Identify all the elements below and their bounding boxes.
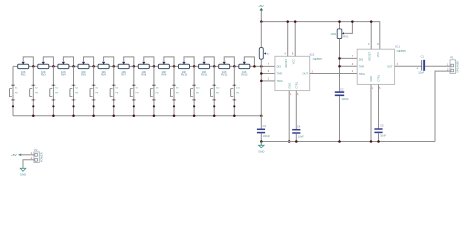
pushbutton S12 xyxy=(231,66,241,115)
svg-text:OUT: OUT xyxy=(387,64,393,68)
wire IC2 CTRL to C4 xyxy=(295,91,297,129)
svg-text:CTRL: CTRL xyxy=(377,74,381,81)
junction xyxy=(295,140,298,143)
svg-text:GND: GND xyxy=(287,83,291,89)
svg-text:C1: C1 xyxy=(421,54,425,58)
junction xyxy=(153,115,156,118)
junction xyxy=(338,140,341,143)
potentiometer RV13 10K xyxy=(239,57,255,77)
junction xyxy=(133,115,136,118)
potentiometer RV5 10K xyxy=(78,57,94,77)
potentiometer RV10 10K xyxy=(179,57,195,77)
junction xyxy=(92,115,95,118)
timer IC1 NE555 xyxy=(352,43,406,90)
svg-text:RV11: RV11 xyxy=(201,74,208,77)
potentiometer RV11 10K xyxy=(199,57,215,77)
wire THR/TRIG tie xyxy=(260,66,262,115)
junction xyxy=(351,20,354,23)
wire P1 pin2 to ground xyxy=(435,71,450,141)
svg-text:+5V: +5V xyxy=(11,153,16,157)
ground GND input xyxy=(20,160,34,177)
junction xyxy=(213,115,216,118)
svg-text:10uF: 10uF xyxy=(418,70,424,74)
potentiometer RV12 10K xyxy=(219,57,235,77)
svg-text:DIS: DIS xyxy=(359,57,364,61)
wire RV1 to IC1 DIS/THR xyxy=(339,39,341,93)
wire IC1 CTRL to C5 xyxy=(378,84,380,129)
junction xyxy=(260,115,263,118)
svg-text:RV8: RV8 xyxy=(141,74,146,77)
pushbutton S4 xyxy=(70,66,79,115)
svg-text:+: + xyxy=(416,67,418,71)
svg-text:RESET: RESET xyxy=(284,58,288,67)
capacitor C4 10nF xyxy=(292,124,304,141)
junction xyxy=(260,72,263,75)
svg-text:VCC: VCC xyxy=(291,59,295,65)
potentiometer RV1 100k xyxy=(330,22,352,39)
junction xyxy=(288,140,291,143)
potentiometer RV7 10K xyxy=(118,57,134,77)
junction xyxy=(193,65,196,68)
potentiometer RV9 10K xyxy=(158,57,174,77)
svg-text:P1: P1 xyxy=(450,56,454,60)
svg-text:10nF: 10nF xyxy=(298,134,304,138)
pushbutton S11 xyxy=(211,66,221,115)
junction xyxy=(72,65,75,68)
junction xyxy=(32,65,35,68)
junction xyxy=(193,115,196,118)
wire C1 to P1 pin1 xyxy=(425,65,450,67)
junction xyxy=(260,65,263,68)
wire IC2 RESET to +5V xyxy=(287,22,289,57)
svg-text:100k: 100k xyxy=(330,32,336,36)
resistor R2 1k xyxy=(259,22,270,67)
svg-text:RV12: RV12 xyxy=(221,74,228,77)
svg-text:THR: THR xyxy=(277,72,282,76)
svg-text:THR: THR xyxy=(359,64,364,68)
svg-text:RV5: RV5 xyxy=(81,74,86,77)
junction xyxy=(260,80,263,83)
svg-text:P2: P2 xyxy=(34,148,38,152)
junction xyxy=(260,140,263,143)
junction xyxy=(32,115,35,118)
potentiometer RV6 10K xyxy=(98,57,114,77)
svg-text:RV1: RV1 xyxy=(343,35,349,39)
svg-text:C4: C4 xyxy=(297,124,301,128)
pushbutton S5 xyxy=(90,66,99,115)
connector P1 SPEAKER xyxy=(447,56,460,74)
junction xyxy=(294,20,297,23)
potentiometer RV2 10K xyxy=(18,57,34,77)
junction xyxy=(286,20,289,23)
svg-text:RV9: RV9 xyxy=(161,74,166,77)
pushbutton S7 xyxy=(130,66,139,115)
wire pot-chain THR/DIS net xyxy=(13,65,275,67)
ground GND xyxy=(258,142,264,154)
svg-text:TRIG: TRIG xyxy=(359,72,365,76)
supply +5V input xyxy=(11,153,34,157)
junction xyxy=(133,65,136,68)
capacitor C1 10uF polarized xyxy=(416,54,425,74)
connector P2 POWER xyxy=(31,148,44,163)
svg-text:C5: C5 xyxy=(380,124,384,128)
pushbutton S3 xyxy=(50,66,59,115)
svg-text:10nF: 10nF xyxy=(380,134,386,138)
svg-text:C2: C2 xyxy=(340,87,344,91)
svg-text:TRIG: TRIG xyxy=(277,79,283,83)
capacitor C5 10nF xyxy=(374,124,386,142)
svg-text:RESET: RESET xyxy=(367,51,371,60)
svg-text:RV6: RV6 xyxy=(101,74,106,77)
junction xyxy=(253,65,256,68)
junction xyxy=(52,65,55,68)
junction xyxy=(92,65,95,68)
svg-text:GND: GND xyxy=(20,173,26,177)
junction xyxy=(370,140,373,143)
junction xyxy=(233,115,236,118)
junction xyxy=(173,65,176,68)
capacitor C2 100nF xyxy=(335,87,349,141)
wire +5V rail xyxy=(261,22,380,50)
svg-text:POWER: POWER xyxy=(39,152,43,162)
svg-text:NE555: NE555 xyxy=(313,57,323,61)
junction xyxy=(112,65,115,68)
wire IC2 GND to ground xyxy=(288,91,290,142)
junction xyxy=(338,65,341,68)
svg-text:RV7: RV7 xyxy=(121,74,126,77)
svg-text:RV13: RV13 xyxy=(241,74,248,77)
junction xyxy=(377,140,380,143)
wire button common rail xyxy=(13,115,261,117)
junction xyxy=(370,20,373,23)
junction xyxy=(112,115,115,118)
junction xyxy=(52,115,55,118)
svg-text:100nF: 100nF xyxy=(263,134,271,138)
svg-text:OUT: OUT xyxy=(303,72,309,76)
wire IC1 OUT to C1 xyxy=(395,65,422,67)
svg-text:RV2: RV2 xyxy=(21,74,26,77)
wire IC2 OUT to IC1 TRIG xyxy=(310,73,358,75)
pushbutton S6 xyxy=(110,66,119,115)
pushbutton S8 xyxy=(150,66,159,115)
svg-text:RV4: RV4 xyxy=(61,74,66,77)
junction xyxy=(153,65,156,68)
wire IC1 RESET to +5V xyxy=(370,22,372,50)
pushbutton S1 xyxy=(9,66,18,115)
wire IC2 VCC to +5V xyxy=(294,22,296,57)
capacitor C3 100nF xyxy=(257,116,270,142)
svg-text:DIS: DIS xyxy=(277,65,282,69)
pushbutton S2 xyxy=(30,66,39,115)
timer IC2 NE555 xyxy=(268,53,322,96)
potentiometer RV3 10K xyxy=(38,57,54,77)
junction xyxy=(213,65,216,68)
junction xyxy=(173,115,176,118)
svg-text:CTRL: CTRL xyxy=(295,81,299,88)
svg-text:RV3: RV3 xyxy=(41,74,46,77)
pushbutton S10 xyxy=(191,66,201,115)
svg-text:SPEAKER: SPEAKER xyxy=(456,60,460,72)
wire ground rail xyxy=(261,141,435,143)
svg-text:IC1: IC1 xyxy=(395,45,400,49)
junction xyxy=(338,57,341,60)
svg-text:+5V: +5V xyxy=(258,4,263,8)
svg-text:VCC: VCC xyxy=(376,52,380,58)
junction xyxy=(338,20,341,23)
svg-text:GND: GND xyxy=(258,149,264,153)
svg-text:C3: C3 xyxy=(263,124,267,128)
svg-text:GND: GND xyxy=(369,76,373,82)
svg-text:RV10: RV10 xyxy=(181,74,188,77)
junction xyxy=(233,65,236,68)
potentiometer RV4 10K xyxy=(58,57,74,77)
potentiometer RV8 10K xyxy=(138,57,154,77)
pushbutton S9 xyxy=(170,66,179,115)
junction xyxy=(260,20,263,23)
svg-text:100nF: 100nF xyxy=(341,97,349,101)
supply +5V xyxy=(258,4,263,22)
svg-text:NE555: NE555 xyxy=(397,49,407,53)
wire IC1 GND to ground xyxy=(370,84,372,141)
junction xyxy=(72,115,75,118)
